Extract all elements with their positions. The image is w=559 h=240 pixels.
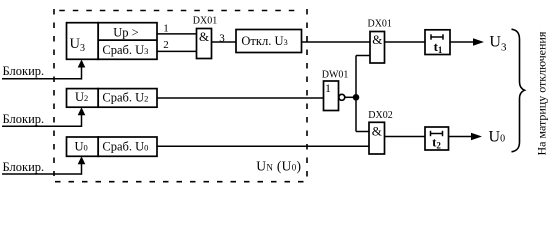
svg-text:3: 3 [219,32,225,44]
svg-text:U0: U0 [75,140,88,154]
svg-text:DX01: DX01 [193,15,217,26]
svg-text:1: 1 [163,22,169,34]
svg-text:Блокир.: Блокир. [3,112,45,126]
svg-text:DX01: DX01 [367,19,391,30]
svg-text:&: & [372,32,382,47]
svg-text:Блокир.: Блокир. [3,160,45,174]
svg-text:Сраб. U0: Сраб. U0 [102,140,148,154]
svg-text:Блокир.: Блокир. [3,64,45,78]
svg-text:DX02: DX02 [368,110,392,121]
svg-text:На матрицу отключения: На матрицу отключения [535,31,549,155]
svg-text:&: & [199,29,209,44]
svg-text:Uр >: Uр > [113,25,138,39]
svg-text:Откл. U3: Откл. U3 [241,34,287,48]
svg-text:DW01: DW01 [322,69,349,80]
svg-text:Сраб. U3: Сраб. U3 [102,43,148,57]
svg-text:2: 2 [163,39,169,51]
svg-text:Сраб. U2: Сраб. U2 [102,91,148,105]
svg-text:&: & [372,123,382,138]
svg-text:U2: U2 [75,90,88,104]
svg-text:1: 1 [325,81,331,95]
